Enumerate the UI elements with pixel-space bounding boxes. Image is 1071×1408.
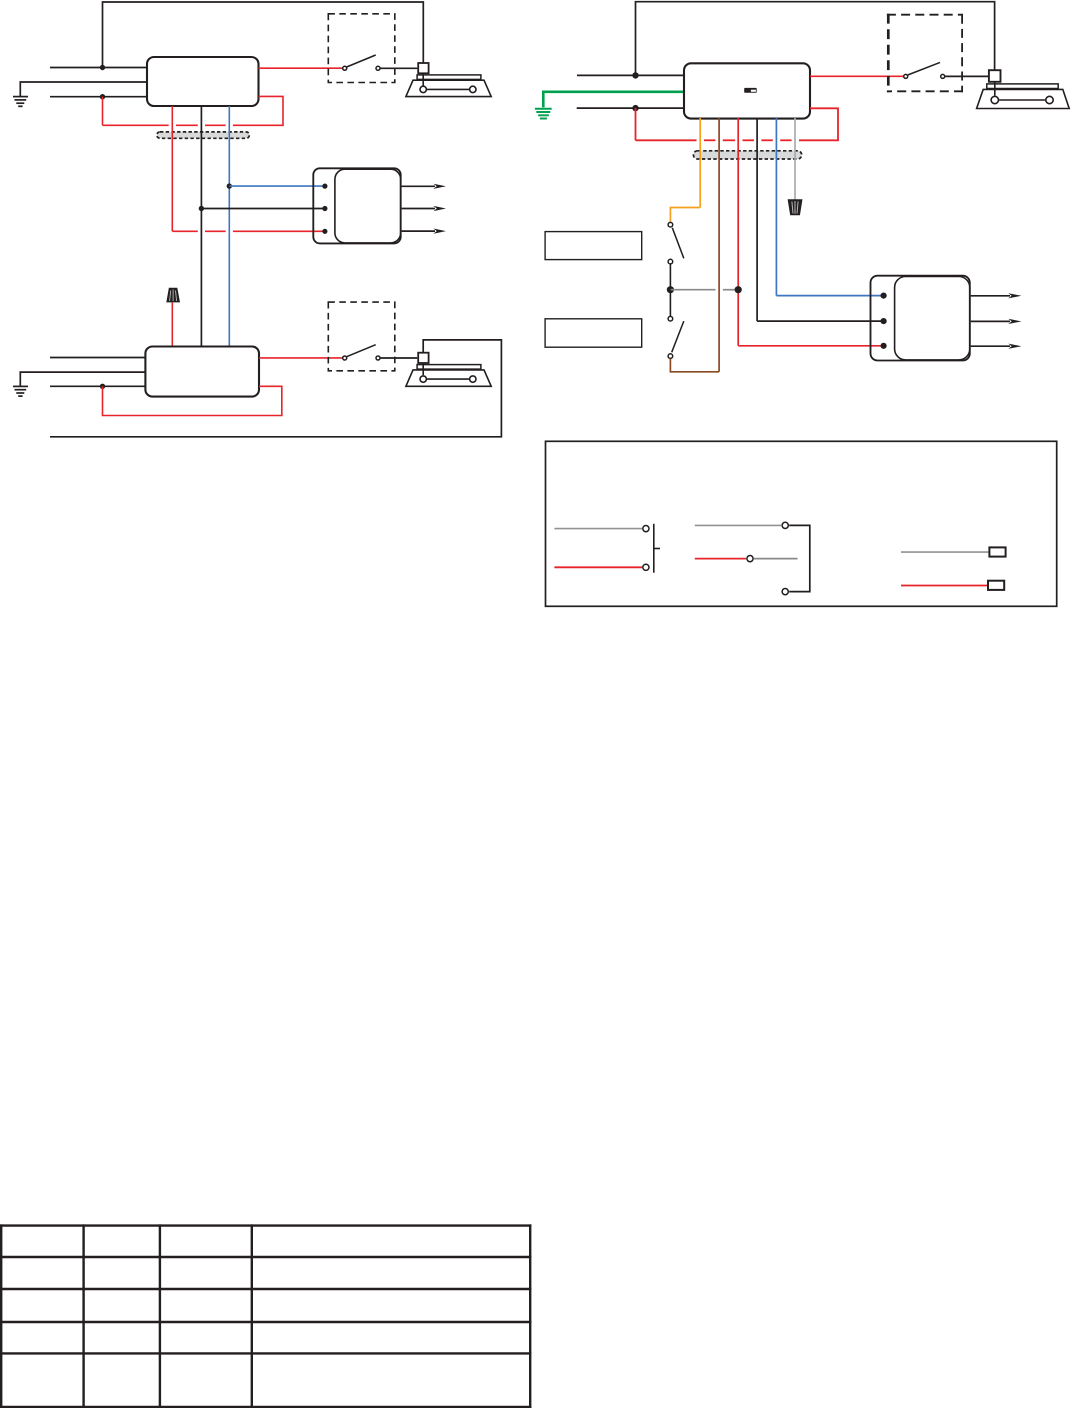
node junction J-black: [199, 206, 204, 211]
switch S4 (upper): [668, 222, 684, 264]
wire U3 pin1 left stub: [577, 74, 684, 76]
legend momentary switch symbol: gray contact circle: [643, 526, 649, 532]
legend toggle switch symbol: middle contact circle: [747, 556, 753, 562]
legend terminal symbol: gray terminal lug: [989, 547, 1005, 556]
legend momentary switch symbol: red contact circle: [643, 564, 649, 570]
node junction J-C2: [632, 105, 638, 111]
node junction J-A2: [100, 94, 105, 99]
wire blue vertical (U1 to U2): [228, 106, 230, 346]
wire U1 pin1 (yellow/batt) left stub: [50, 67, 147, 69]
node junction J-blue: [227, 183, 232, 188]
label box L1: [545, 232, 642, 260]
node junction J-A1: [100, 65, 105, 70]
connector C1 outer shell: [313, 168, 400, 243]
legend terminal symbol: red lead: [901, 585, 987, 587]
legend toggle switch symbol: gray lead top: [695, 524, 781, 526]
USB icon on U3: [744, 88, 757, 93]
wire red accessory loop (U3 right to junction J-C2): [636, 108, 839, 140]
table left border: [0, 1224, 2, 1408]
battery BAT1: [406, 74, 491, 97]
head unit U2: [145, 347, 259, 397]
battery BAT2: [406, 364, 491, 387]
grommet O1 (firewall pass-through): [157, 132, 250, 138]
wire orange vertical from U3: [699, 118, 701, 208]
legend momentary switch symbol: red lead: [554, 566, 642, 568]
dashed box B1 (switch enclosure): [328, 14, 395, 83]
connector C1 inner body: [335, 169, 401, 243]
arrow out 2: [971, 296, 1010, 346]
wire U2 pin3 left stub: [50, 385, 145, 387]
battery BAT3: [977, 83, 1070, 109]
wire nut N2 (hanging): [788, 200, 802, 215]
wire brown vertical from U3: [718, 118, 720, 372]
table row line 2: [0, 1288, 531, 1290]
switch S5 (lower): [668, 316, 684, 358]
node junction J-B1: [100, 384, 105, 389]
table right border: [529, 1224, 531, 1408]
wire red vertical from U3: [737, 118, 739, 346]
wire U1 pin3 (accessory) left stub: [50, 96, 147, 98]
table column line 2: [159, 1224, 161, 1408]
wire U3 pin3 left stub: [577, 107, 684, 109]
switch S1: [343, 55, 380, 70]
node junction J-S1: [667, 286, 674, 293]
switch S3: [904, 62, 945, 78]
terminal T1 (battery post clamp): [418, 63, 428, 73]
dashed box B2 (switch enclosure): [328, 302, 395, 371]
wire black to connector pin 2: [201, 208, 325, 210]
table row line 1: [0, 1256, 531, 1258]
wire S1 to terminal T1: [380, 67, 417, 69]
wire gray vertical from U3: [794, 118, 796, 200]
pin dots C1: [322, 184, 327, 189]
table row line 4: [0, 1352, 531, 1354]
wire gray link to red wire: [670, 289, 738, 291]
wire red stub nut to U2: [171, 303, 173, 347]
legend momentary switch symbol: gray lead: [554, 528, 642, 530]
wire junction to switch S5: [669, 290, 671, 316]
wire S3 to terminal T3: [945, 75, 988, 77]
terminal T2: [418, 353, 428, 363]
ground GND2: [13, 386, 28, 396]
legend toggle switch symbol: bracket: [789, 525, 810, 591]
grommet O2 (firewall pass-through): [693, 151, 801, 159]
wire red U2 to switch S2: [259, 357, 343, 359]
table bottom border: [0, 1406, 531, 1408]
wire red elbow to connector pin 3: [738, 345, 883, 347]
wire switch S4 to junction: [669, 264, 671, 290]
switch S2: [343, 345, 380, 360]
wire U1 ground lead: [20, 82, 146, 96]
wire blue to connector pin 1: [229, 185, 325, 187]
label box L2: [545, 319, 642, 347]
wire U2 ground lead: [20, 372, 145, 386]
legend frame: [546, 441, 1057, 606]
wire battery BAT2 return loop: [50, 340, 501, 437]
legend toggle switch symbol: gray pole: [754, 558, 798, 560]
wire battery feed loop (head unit U1 to battery BAT1 via top): [103, 2, 424, 68]
dashed box D3 (switch enclosure): [887, 14, 963, 92]
wire brown return from S5: [670, 359, 719, 372]
wire red U3 to switch S3: [810, 75, 904, 77]
wire blue elbow to connector pin 1: [776, 295, 883, 297]
wire blue vertical from U3: [775, 118, 777, 296]
head unit U3: [684, 63, 810, 118]
legend terminal symbol: red terminal lug: [988, 581, 1004, 590]
wire red U1 to fuse switch S1: [259, 67, 343, 69]
terminal T3: [989, 70, 1001, 82]
wire red to connector pin 3: [172, 230, 325, 232]
legend toggle switch symbol: red lead middle: [695, 558, 746, 560]
wire S2 to terminal T2: [380, 357, 417, 359]
wire red loop U2 accessory to junction J-B1: [103, 386, 282, 415]
ground GND3 (green): [535, 109, 552, 119]
table row line 3: [0, 1321, 531, 1323]
table column line 1: [82, 1224, 84, 1408]
node junction J-C1: [632, 72, 638, 78]
wire black elbow to connector pin 2: [757, 320, 884, 322]
wire nut N1: [167, 288, 180, 302]
wire black vertical from U3: [756, 118, 758, 321]
wire orange jog to switch S4: [670, 208, 700, 222]
wire red accessory loop (U1 right side to junction J-A2): [103, 96, 284, 125]
wire black vertical (U1 to U2): [200, 106, 202, 346]
legend momentary switch symbol: actuator bar: [654, 524, 660, 573]
pin dots C2: [881, 293, 887, 299]
table top border: [0, 1224, 531, 1226]
ground GND1: [13, 97, 28, 107]
arrow out 1: [402, 186, 435, 231]
head unit U1: [147, 57, 259, 106]
connector C2 outer shell: [871, 276, 970, 361]
legend toggle switch symbol: top contact circle: [782, 522, 788, 528]
legend toggle switch symbol: bottom contact circle: [782, 589, 788, 595]
node junction J-S2: [735, 286, 742, 293]
wire red vertical (power to lower unit row): [171, 106, 173, 231]
legend terminal symbol: gray lead: [901, 551, 988, 553]
wire battery feed loop (head unit U3 to battery BAT3 via top): [636, 2, 995, 76]
wire U2 pin1 left stub: [50, 357, 145, 359]
connector C2 inner body: [895, 277, 970, 360]
wire green ground lead: [543, 92, 684, 108]
table column line 3: [251, 1224, 253, 1408]
